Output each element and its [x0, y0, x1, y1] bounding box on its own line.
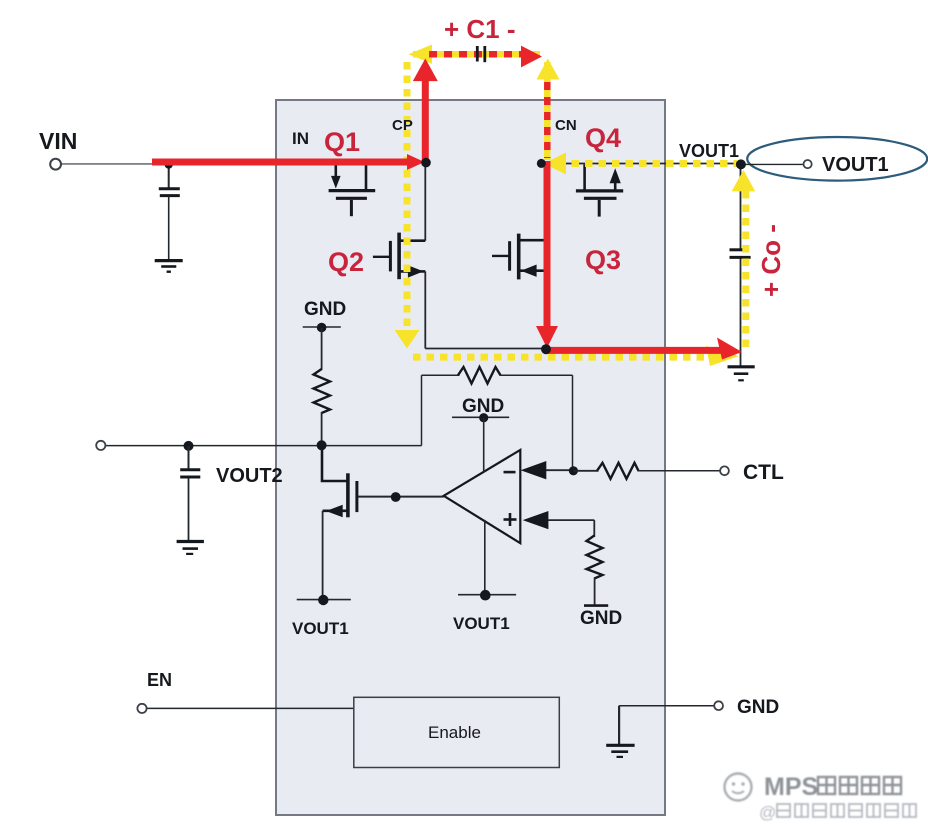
yellow base line top C1: [413, 51, 540, 58]
red riser CP up: [422, 79, 429, 166]
node VOUT1 right: [736, 159, 746, 169]
resistor R1 vertical: [314, 369, 331, 413]
node VOUT1 mid: [480, 590, 491, 601]
yellow path: bottom horizontal: [413, 354, 707, 361]
wire feedback vertical left: [421, 375, 423, 445]
transistor Q1 right lead: [365, 165, 368, 190]
wire VOUT1 to terminal: [744, 163, 804, 165]
wire resistor to node: [321, 412, 323, 446]
capacitor CIN stem bottom wire: [168, 197, 170, 260]
yellow arrow up CN riser: [537, 59, 560, 80]
terminal VOUT2: [96, 441, 105, 450]
svg-text:GND: GND: [304, 299, 346, 320]
svg-text:VOUT1: VOUT1: [822, 154, 889, 176]
wire CN to VOUT1: [541, 163, 741, 165]
ground right symbol: [606, 744, 634, 747]
svg-text:EN: EN: [147, 670, 172, 690]
node at VIN cap junction: [165, 160, 173, 168]
wire internal bottom rail: [425, 348, 546, 350]
resistor R3 CTL: [597, 463, 639, 479]
transistor Q2 gate bar: [389, 241, 392, 272]
svg-text:Q3: Q3: [585, 245, 621, 275]
transistor Q3 channel bar: [517, 234, 521, 280]
IC body U1: [276, 100, 665, 815]
node GND op-amp: [479, 413, 488, 422]
watermark logo circle: [725, 774, 752, 801]
yellow path: CP leg vertical: [404, 62, 411, 331]
svg-text:CTL: CTL: [743, 461, 784, 484]
transistor M1 source arrow: [326, 505, 343, 517]
red dashes on C1 line: [429, 51, 523, 58]
svg-text:VOUT1: VOUT1: [453, 614, 510, 633]
wire R4 to gnd: [594, 578, 596, 605]
svg-text:+ Co -: + Co -: [756, 224, 786, 297]
capacitor C1 plates: [476, 46, 479, 62]
svg-text:VIN: VIN: [39, 128, 77, 154]
transistor Q2 source arm: [399, 270, 425, 273]
wire feedback lead right: [500, 374, 573, 376]
svg-text:GND: GND: [737, 697, 779, 718]
VOUT1 pin bar left: [297, 599, 351, 601]
wire M1 source down: [322, 511, 324, 600]
wire inverting input: [545, 469, 573, 471]
wire GND right terminal: [619, 705, 714, 707]
yellow arrow left top C1 line: [409, 45, 433, 64]
red arrow right end of C1 line: [521, 46, 542, 68]
red arrow down at rail: [536, 326, 558, 348]
svg-text:VOUT1: VOUT1: [292, 619, 349, 638]
watermark CJK blocks row1: [818, 777, 901, 794]
svg-text:IN: IN: [292, 129, 309, 148]
node CN: [537, 159, 546, 168]
svg-text:VOUT2: VOUT2: [216, 465, 283, 487]
GND bar above op-amp: [452, 416, 509, 418]
arrow into minus input: [521, 461, 547, 479]
svg-text:+ C1 -: + C1 -: [444, 14, 516, 44]
capacitor Co plates: [730, 248, 746, 251]
wire GND right down: [618, 706, 620, 745]
wire CTL resistor lead left: [573, 470, 598, 472]
wire non-inverting input: [546, 519, 594, 521]
transistor Q3 gate bar: [508, 241, 511, 271]
terminal EN: [137, 704, 146, 713]
VOUT1 pin bar mid: [458, 594, 516, 596]
svg-text:GND: GND: [580, 608, 622, 629]
transistor Q2 drain arm: [399, 239, 425, 242]
transistor Q3 source arrow: [521, 265, 537, 277]
capacitor CIN stem top: [168, 164, 170, 188]
node VOUT1 left: [318, 595, 328, 605]
transistor Q4 bottom bar: [584, 197, 617, 200]
wire gnd chain down: [321, 328, 323, 370]
terminal CTL: [720, 466, 729, 475]
red dashes on CN riser: [544, 82, 551, 158]
yellow arrow left at CN: [544, 153, 566, 175]
transistor Q4 source arrow up: [614, 181, 617, 190]
red drop CN to rail: [544, 161, 551, 327]
ground under Co: [728, 365, 755, 368]
transistor Q4 left lead: [583, 165, 586, 190]
node VOUT2 cap: [184, 441, 194, 451]
op-amp U2: [444, 450, 521, 543]
resistor R4 vertical: [587, 536, 603, 579]
transistor Q1 top bar: [329, 189, 376, 192]
transistor Q2 source arrow: [408, 265, 424, 277]
op-amp plus sign: [504, 518, 517, 521]
node GND chain: [317, 323, 327, 333]
wire plus input down: [593, 520, 595, 537]
node R1 bottom: [317, 440, 327, 450]
terminal GND right: [714, 701, 723, 710]
terminal VOUT1 in ellipse: [804, 160, 812, 168]
transistor Q1 gate stem: [350, 200, 353, 216]
node rail bottom: [541, 344, 551, 354]
transistor Q4 top bar: [576, 189, 623, 192]
wire VOUT2 horizontal: [105, 445, 421, 447]
yellow arrow down CP leg: [395, 330, 420, 349]
svg-text:CN: CN: [555, 117, 577, 134]
wire op-amp top supply: [483, 418, 485, 472]
wire op-amp bottom supply: [484, 520, 486, 595]
Enable block: [354, 697, 560, 767]
wire VIN terminal to red line: [61, 163, 156, 165]
red VIN line: [152, 159, 409, 166]
transistor Q3 gate lead: [492, 255, 509, 257]
svg-text:Q1: Q1: [324, 127, 360, 157]
op-amp minus sign: [504, 471, 516, 474]
transistor Q2 gate lead: [373, 256, 390, 258]
wire feedback vertical right: [572, 375, 574, 471]
svg-text:@: @: [759, 803, 776, 822]
red arrow right at Co ground: [717, 338, 742, 360]
wire CTL lead right: [638, 470, 721, 472]
wire EN: [147, 707, 354, 709]
GND pin bar left chain: [303, 326, 341, 328]
node gate wire: [391, 492, 401, 502]
yellow path: Co riser vertical: [742, 191, 749, 353]
yellow arrow up Co riser: [732, 170, 756, 191]
svg-text:Enable: Enable: [428, 723, 481, 742]
transistor Q3 drain arm: [519, 239, 544, 242]
wire Q2 drain to CP: [424, 164, 426, 241]
gnd bar under R4: [584, 604, 608, 607]
transistor M1 gate bar: [355, 481, 358, 512]
node CP: [421, 158, 431, 168]
capacitor CVOUT2: [188, 446, 190, 469]
svg-text:MPS: MPS: [764, 773, 818, 801]
transistor M1 gate wire to op-amp: [358, 496, 444, 498]
capacitor Co stem top: [740, 164, 742, 249]
transistor Q1 drain arrow: [334, 165, 337, 178]
yellow path: CN to VOUT1 horizontal: [558, 160, 737, 167]
resistor R2 feedback: [458, 367, 501, 384]
red bottom line: [546, 347, 722, 354]
capacitor Co stem bottom: [740, 258, 742, 366]
svg-text:GND: GND: [462, 396, 504, 417]
transistor Q1 bottom bar: [336, 197, 367, 200]
terminal VIN: [50, 159, 61, 170]
wire Q2 source down: [424, 271, 426, 348]
transistor M1 channel bar: [346, 473, 350, 517]
yellow base line CN riser: [544, 62, 551, 160]
transistor Q2 channel bar: [397, 233, 401, 280]
transistor M1 drain path: [322, 446, 347, 481]
ground under CIN: [155, 259, 183, 262]
svg-text:CP: CP: [392, 117, 413, 134]
node CTL feedback: [569, 466, 578, 475]
transistor Q4 gate stem: [598, 200, 601, 217]
wire feedback lead left: [422, 374, 460, 376]
svg-text:Q2: Q2: [328, 247, 364, 277]
svg-text:VOUT1: VOUT1: [679, 141, 739, 161]
transistor Q3 source arm: [519, 269, 544, 272]
red arrow up at C1: [413, 59, 438, 82]
capacitor CIN plates: [159, 187, 180, 190]
ground under CVOUT2: [177, 540, 204, 543]
red arrow right at CP: [407, 154, 425, 170]
transistor M1 source arm: [323, 509, 348, 512]
arrow into plus input: [523, 511, 549, 529]
ellipse VOUT1 callout: [747, 137, 927, 181]
svg-text:Q4: Q4: [585, 123, 621, 153]
yellow arrow right bottom: [706, 346, 739, 366]
